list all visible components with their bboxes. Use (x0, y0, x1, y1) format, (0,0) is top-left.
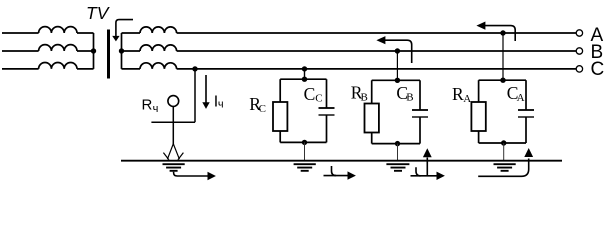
ground current arrow at block C stub (332, 166, 337, 176)
wire phase B line (177, 50, 577, 52)
TV pointer arrowhead (112, 36, 119, 42)
person body wire (172, 106, 174, 145)
svg-text:ч: ч (218, 98, 224, 110)
svg-text:A: A (517, 92, 525, 104)
junction dot block C bottom (302, 140, 307, 145)
capacitor CB bottom plate (412, 116, 428, 118)
resistor RA (471, 102, 485, 131)
resistor RB (365, 104, 379, 133)
primary winding coil phase B (39, 45, 77, 51)
secondary winding coil phase A (140, 27, 177, 33)
capacitor CC top plate (319, 107, 335, 109)
block B right wire upper (419, 80, 421, 110)
wire block C to ground (304, 142, 306, 160)
svg-text:R: R (142, 96, 153, 113)
current arrow above phase B (385, 40, 412, 63)
block A top bar (479, 79, 526, 81)
ground current arrow at block B head (437, 172, 445, 180)
wire phase C line (177, 68, 577, 70)
terminal circle phase A (576, 30, 582, 36)
wire secondary bus to coil A (122, 32, 141, 34)
junction dot phase C block tap (302, 66, 307, 71)
wire secondary bus to coil B (122, 50, 141, 52)
junction dot phase B block tap (395, 48, 400, 53)
svg-text:TV: TV (86, 3, 111, 23)
wire phase B primary to bus (77, 50, 94, 52)
wire phase C primary lead-in (2, 68, 39, 70)
terminal circle phase C (576, 66, 582, 72)
primary winding coil phase C (39, 62, 77, 68)
block C bottom bar (280, 141, 326, 143)
earth symbol block C (294, 164, 316, 171)
earth symbol block A (494, 164, 516, 171)
block C right wire lower (326, 115, 328, 142)
block B right wire lower (419, 117, 421, 144)
junction dot block B top bar (395, 78, 400, 83)
current arrow I person head (202, 102, 209, 109)
wire block A to ground (503, 143, 505, 161)
block B left wire upper (371, 80, 373, 103)
wire phase B primary lead-in (2, 50, 39, 52)
block C right wire upper (326, 79, 328, 108)
stub phase B to block (396, 51, 398, 80)
ground current arrow at block C head (348, 171, 356, 179)
current arrow I person (205, 75, 207, 103)
junction dot phase A block tap (500, 30, 505, 35)
svg-text:B: B (361, 91, 368, 103)
person arms bar (151, 121, 195, 123)
transformer core bar (107, 30, 110, 79)
junction dot block C top bar (302, 77, 307, 82)
resistor RC (273, 102, 287, 131)
junction dot phase C person tap (192, 66, 197, 71)
terminal circle phase B (576, 48, 582, 54)
earth symbol block B (386, 164, 409, 171)
capacitor CA top plate (518, 109, 534, 111)
svg-text:B: B (406, 92, 413, 104)
primary neutral bus wire (93, 33, 95, 69)
wire phase A primary to bus (77, 32, 94, 34)
secondary winding coil phase B (140, 45, 177, 51)
svg-text:A: A (463, 93, 471, 105)
block A bottom bar (479, 142, 526, 144)
svg-text:C: C (591, 59, 605, 80)
svg-text:C: C (259, 103, 266, 115)
person legs (167, 144, 179, 159)
junction dot secondary bus phase B (119, 48, 124, 53)
svg-text:R: R (452, 84, 464, 104)
svg-text:ч: ч (153, 103, 159, 115)
ground current arrow at block A (478, 159, 529, 177)
junction dot block A top bar (500, 78, 505, 83)
stub phase C to block (304, 69, 306, 79)
current arrow above phase A (485, 26, 515, 41)
block A left wire lower (478, 131, 480, 143)
capacitor CB top plate (412, 109, 428, 111)
junction dot primary bus phase B (91, 48, 96, 53)
ground current arrow at block B stub (416, 167, 421, 176)
wire secondary bus to coil C (122, 68, 141, 70)
junction dot block B bottom (395, 141, 400, 146)
svg-text:C: C (304, 84, 316, 104)
block B left wire lower (371, 133, 373, 144)
TV pointer arrow (116, 20, 133, 37)
ground current arrow at block C (324, 175, 349, 177)
ground current arrow at person head (208, 172, 216, 180)
block C top bar (280, 78, 326, 80)
up current arrow at capacitor CA head (524, 148, 533, 157)
capacitor CA bottom plate (518, 116, 534, 118)
block A left wire upper (478, 80, 480, 102)
wire phase A primary lead-in (2, 32, 39, 34)
block A right wire lower (525, 117, 527, 143)
block A right wire upper (525, 80, 527, 110)
svg-text:C: C (315, 92, 322, 104)
block B bottom bar (372, 143, 420, 145)
ground current arrow at block B (411, 175, 438, 177)
current arrow above phase A head (476, 22, 485, 30)
secondary winding coil phase C (140, 63, 177, 69)
wire block B to ground (397, 144, 399, 161)
person head circle (168, 96, 179, 107)
earth symbol person (163, 164, 185, 171)
wire phase C down to person hand (194, 69, 196, 122)
person feet barbs (163, 153, 183, 160)
block B top bar (372, 79, 420, 81)
secondary neutral bus wire (121, 33, 123, 69)
block C left wire upper (279, 79, 281, 102)
current arrow above phase B head (376, 36, 385, 44)
capacitor CC bottom plate (319, 114, 335, 116)
ground current arrow at person (174, 172, 209, 176)
up current arrow at capacitor CB head (423, 148, 432, 157)
block C left wire lower (279, 131, 281, 142)
wire phase C primary to bus (77, 68, 94, 70)
up current arrow at capacitor CB (426, 158, 428, 176)
junction dot block A bottom (501, 140, 506, 145)
stub phase A to block (502, 33, 504, 80)
ground surface line (121, 160, 562, 162)
wire phase A line (177, 32, 577, 34)
primary winding coil phase A (39, 27, 77, 33)
